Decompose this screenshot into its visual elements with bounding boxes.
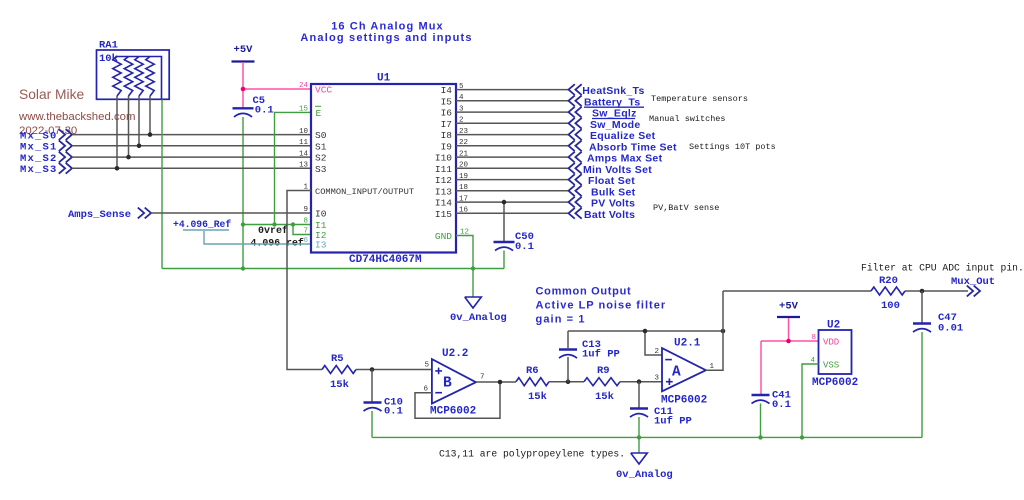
wire U1 I6 to net label	[456, 111, 569, 113]
wire I14 to C50	[503, 202, 505, 241]
svg-text:0vref: 0vref	[258, 225, 288, 237]
junction feedback/output	[721, 329, 726, 334]
svg-text:Equalize Set: Equalize Set	[590, 130, 656, 142]
junction E/0vref	[272, 222, 276, 226]
svg-text:0v_Analog: 0v_Analog	[450, 312, 507, 324]
wire COMMON_INPUT/OUTPUT to R5	[287, 191, 322, 370]
junction RA1/select line	[115, 166, 120, 171]
junction C5/rail	[241, 266, 245, 270]
junction R20/C47	[920, 289, 925, 294]
svg-text:5: 5	[424, 362, 429, 370]
resistor R5	[322, 366, 356, 374]
net label PV Volts	[569, 197, 575, 208]
svg-text:Mx_S0: Mx_S0	[20, 130, 58, 142]
svg-text:9: 9	[303, 206, 308, 214]
wire to U2.1 pin2	[645, 331, 662, 355]
svg-text:7: 7	[303, 228, 308, 236]
svg-text:13: 13	[299, 162, 309, 170]
resistor R20	[871, 287, 905, 295]
capacitor C5	[233, 107, 254, 109]
capacitor C10	[364, 401, 382, 403]
svg-text:I15: I15	[435, 209, 452, 220]
net label Equalize Set	[569, 129, 575, 140]
wire Mx_S1 to U1	[72, 145, 311, 147]
svg-text:Mux_Out: Mux_Out	[951, 276, 995, 288]
svg-text:1uf PP: 1uf PP	[654, 416, 692, 428]
wire U2.2 feedback loop	[415, 382, 500, 418]
svg-text:Manual switches: Manual switches	[649, 114, 726, 124]
svg-text:U2.1: U2.1	[674, 338, 701, 350]
svg-text:R5: R5	[331, 353, 344, 365]
svg-text:1uf PP: 1uf PP	[582, 349, 620, 361]
svg-text:U1: U1	[377, 73, 391, 85]
junction GND/rail	[471, 266, 475, 270]
svg-text:COMMON_INPUT/OUTPUT: COMMON_INPUT/OUTPUT	[315, 187, 414, 197]
wire C5 to 0v rail (green)	[242, 117, 244, 269]
svg-text:15: 15	[299, 106, 309, 114]
ground symbol 0v_Analog (lower)	[631, 453, 648, 464]
svg-text:16 Ch Analog Mux: 16 Ch Analog Mux	[331, 21, 444, 33]
svg-text:I3: I3	[315, 240, 327, 251]
svg-text:0.01: 0.01	[938, 323, 963, 335]
U2.2 plus marker	[435, 370, 442, 372]
underline for Sw_Eqlz	[592, 118, 635, 120]
svg-text:3: 3	[654, 375, 659, 383]
svg-text:I9: I9	[441, 141, 453, 152]
svg-text:C13,11 are polypropeylene type: C13,11 are polypropeylene types.	[439, 449, 625, 460]
svg-text:6: 6	[303, 237, 308, 245]
wire U1 I14 to net label	[456, 201, 569, 203]
wire U2.2 output	[476, 381, 516, 383]
wire C11 to 0v rail (green)	[638, 417, 640, 437]
svg-text:MCP6002: MCP6002	[661, 395, 707, 407]
svg-text:U2: U2	[827, 320, 840, 332]
junction +5V/VDD/C41	[786, 339, 791, 344]
net label Battery_Ts	[569, 95, 575, 106]
svg-text:I11: I11	[435, 164, 452, 175]
junction RA1/select line	[148, 132, 153, 137]
svg-text:MCP6002: MCP6002	[812, 377, 858, 389]
svg-text:I7: I7	[441, 119, 452, 130]
svg-text:R9: R9	[597, 365, 610, 377]
wire junction to C10	[371, 370, 373, 403]
wire R20 to Mux_Out	[905, 290, 968, 292]
wire RA1 lead	[149, 96, 151, 135]
svg-text:10: 10	[299, 128, 309, 136]
junction R5/C10	[370, 367, 375, 372]
wire feedback top horizontal	[568, 330, 723, 332]
svg-text:8: 8	[811, 334, 816, 342]
wire U1 I13 to net label	[456, 190, 569, 192]
wire junction to C13	[567, 357, 569, 382]
wire R9 to U2.1 +	[620, 381, 662, 383]
junction VSS/rail	[800, 435, 804, 439]
wire R20 junction to C47	[921, 291, 923, 323]
capacitor C13	[559, 348, 577, 350]
wire RA1 common to 0v rail (green)	[161, 100, 163, 269]
wire C10 to 0v rail (green)	[371, 411, 373, 437]
svg-text:I4: I4	[441, 85, 453, 96]
svg-text:I0: I0	[315, 209, 327, 220]
svg-text:CD74HC4067M: CD74HC4067M	[349, 254, 422, 266]
svg-text:B: B	[443, 376, 452, 392]
junction I2 branch	[291, 222, 295, 226]
wire Mx_S0 to U1	[72, 134, 311, 136]
IC U1 body	[311, 84, 456, 253]
svg-text:Solar Mike: Solar Mike	[19, 87, 84, 102]
wire to C41 (pink)	[760, 341, 762, 395]
net label Min Volts Set	[569, 163, 575, 174]
svg-text:Mx_S3: Mx_S3	[20, 164, 58, 176]
svg-text:I12: I12	[435, 175, 452, 186]
svg-text:Sw_Mode: Sw_Mode	[590, 119, 641, 131]
svg-text:gain = 1: gain = 1	[536, 314, 586, 326]
capacitor C50	[494, 241, 515, 243]
+4.096_Ref underline	[183, 229, 229, 231]
svg-text:I5: I5	[441, 96, 453, 107]
net label Float Set	[569, 174, 575, 185]
svg-text:Filter at CPU ADC input pin.: Filter at CPU ADC input pin.	[861, 263, 1024, 274]
wire U1 I12 to net label	[456, 179, 569, 181]
svg-text:R20: R20	[879, 275, 898, 287]
op-amp U2.2	[432, 359, 476, 404]
wire R20 line left segment	[723, 290, 871, 292]
junction feedback/pin2	[643, 329, 648, 334]
wire 0v analog rail upper (green)	[162, 268, 504, 270]
svg-text:VCC: VCC	[315, 85, 332, 96]
svg-text:8: 8	[303, 218, 308, 226]
svg-text:0.1: 0.1	[384, 406, 403, 418]
wire junction to C11	[638, 382, 640, 408]
svg-text:2: 2	[654, 348, 659, 356]
junction C5/0vref	[241, 222, 245, 226]
svg-text:Mx_S2: Mx_S2	[20, 153, 58, 165]
svg-text:0.1: 0.1	[515, 241, 534, 253]
junction R6/R9/C13	[566, 379, 571, 384]
wire E pin to 0vref net (green)	[275, 112, 312, 224]
svg-text:Common Output: Common Output	[536, 286, 632, 298]
junction C11/rail	[637, 435, 641, 439]
wire U1 I11 to net label	[456, 167, 569, 169]
svg-text:0.1: 0.1	[255, 104, 274, 116]
wire U1 I9 to net label	[456, 145, 569, 147]
wire Mx_S2 to U1	[72, 156, 311, 158]
op-amp U2.1	[662, 348, 706, 391]
wire U2.1 output up to R20 line	[706, 291, 723, 370]
svg-text:E: E	[316, 108, 322, 119]
svg-text:15k: 15k	[330, 379, 349, 391]
capacitor C47	[913, 322, 931, 324]
wire U1 GND to 0v (green)	[456, 236, 473, 298]
svg-text:Mx_S1: Mx_S1	[20, 142, 58, 154]
svg-text:HeatSnk_Ts: HeatSnk_Ts	[582, 85, 644, 97]
svg-text:Float Set: Float Set	[588, 175, 635, 187]
svg-text:Batt Volts: Batt Volts	[584, 209, 635, 221]
wire C47 to 0v rail (green)	[921, 332, 923, 437]
wire U1 I10 to net label	[456, 156, 569, 158]
svg-text:Active LP noise filter: Active LP noise filter	[536, 300, 667, 312]
wire 0vref horizontal (green)	[243, 224, 311, 226]
svg-text:I14: I14	[435, 198, 452, 209]
svg-text:PV Volts: PV Volts	[591, 198, 635, 210]
wire RA1 lead	[128, 96, 130, 157]
svg-text:+5V: +5V	[779, 301, 799, 313]
net label Batt Volts	[569, 208, 575, 219]
svg-text:24: 24	[299, 82, 309, 90]
wire U1 I5 to net label	[456, 100, 569, 102]
wire C13 to feedback line	[567, 331, 569, 350]
svg-text:VDD: VDD	[823, 338, 839, 348]
svg-text:Amps_Sense: Amps_Sense	[68, 209, 131, 221]
capacitor C11	[630, 407, 648, 409]
wire U1 I15 to net label	[456, 212, 569, 214]
wire 0v analog rail lower (green)	[372, 436, 922, 438]
svg-text:Analog settings and inputs: Analog settings and inputs	[300, 32, 472, 44]
wire 0vref branch to I2 (green)	[293, 225, 311, 235]
ground symbol 0v_Analog (upper)	[465, 297, 482, 308]
svg-text:www.thebackshed.com: www.thebackshed.com	[18, 111, 136, 123]
svg-text:0.1: 0.1	[772, 399, 791, 411]
svg-text:Temperature sensors: Temperature sensors	[651, 94, 748, 104]
wire C50 to 0v rail (green)	[503, 251, 505, 269]
svg-text:GND: GND	[435, 231, 452, 242]
wire U1 I8 to net label	[456, 134, 569, 136]
wire Mx_S3 to U1	[72, 167, 311, 169]
RA1 resistor element 2	[124, 57, 132, 97]
wire C41 to 0v rail (green)	[760, 404, 762, 438]
junction C41/rail	[758, 435, 762, 439]
net label Amps Max Set	[569, 152, 575, 163]
svg-text:+4.096_Ref: +4.096_Ref	[173, 219, 231, 230]
svg-text:VSS: VSS	[823, 361, 839, 371]
wire +4.096_Ref to I3 (teal)	[204, 231, 311, 244]
U2.1 plus marker	[666, 381, 673, 383]
svg-text:11: 11	[299, 139, 309, 147]
svg-text:Bulk Set: Bulk Set	[591, 186, 636, 198]
net label Sw_Mode	[569, 118, 575, 129]
junction U2.2 output/feedback	[498, 380, 503, 385]
U2.2 minus marker	[435, 392, 442, 394]
svg-text:100: 100	[881, 300, 900, 312]
svg-text:S1: S1	[315, 141, 327, 152]
svg-text:R6: R6	[526, 365, 539, 377]
U2.1 minus marker	[665, 359, 672, 361]
wire U1 I7 to net label	[456, 122, 569, 124]
svg-text:15k: 15k	[528, 391, 547, 403]
svg-text:15k: 15k	[595, 391, 614, 403]
junction I14/C50	[502, 200, 507, 205]
svg-text:S2: S2	[315, 153, 327, 164]
svg-text:4.096 ref: 4.096 ref	[251, 238, 304, 249]
svg-text:Absorb Time Set: Absorb Time Set	[589, 141, 677, 153]
wire VSS to 0v rail (green)	[802, 364, 819, 437]
RA1 resistor element 3	[135, 57, 143, 97]
RA1 common bus wire	[117, 57, 162, 100]
svg-text:I10: I10	[435, 153, 452, 164]
underline for Battery_Ts	[584, 106, 644, 108]
wire U1 I4 to net label	[456, 89, 569, 91]
RA1 resistor element 1	[113, 57, 121, 97]
junction RA1/select line	[137, 144, 142, 149]
IC U2 power pins body	[819, 330, 852, 374]
svg-text:+5V: +5V	[234, 44, 254, 56]
svg-text:S0: S0	[315, 130, 327, 141]
wire Amps_Sense to I0	[151, 212, 311, 214]
svg-text:I13: I13	[435, 186, 452, 197]
junction +5V/VCC/C5	[241, 87, 246, 92]
wire RA1 lead	[138, 96, 140, 146]
svg-text:I8: I8	[441, 130, 453, 141]
svg-text:Min Volts Set: Min Volts Set	[583, 164, 652, 176]
wire R6 to R9	[549, 381, 584, 383]
net label Bulk Set	[569, 185, 575, 196]
svg-text:14: 14	[299, 150, 309, 158]
svg-text:7: 7	[480, 374, 485, 382]
svg-text:0v_Analog: 0v_Analog	[616, 469, 673, 481]
wire R5 to U2.2 +	[356, 369, 432, 371]
svg-text:RA1: RA1	[99, 40, 118, 52]
svg-text:U2.2: U2.2	[442, 348, 468, 360]
resistor network RA1 box	[97, 50, 170, 99]
svg-text:MCP6002: MCP6002	[430, 406, 476, 418]
svg-text:I6: I6	[441, 108, 453, 119]
wire +5V to VCC (pink)	[242, 62, 244, 108]
resistor R9	[584, 378, 620, 386]
wire +5V to VDD (pink)	[788, 318, 790, 341]
net label Absorb Time Set	[569, 140, 575, 151]
wire rail to ground symbol (green)	[638, 437, 640, 453]
svg-text:A: A	[672, 365, 681, 381]
net label Sw_Eqlz	[569, 107, 575, 118]
RA1 resistor element 4	[146, 57, 154, 97]
net label HeatSnk_Ts	[569, 84, 575, 95]
svg-text:Settings 10T pots: Settings 10T pots	[689, 142, 776, 152]
wire RA1 lead	[116, 96, 118, 168]
resistor R6	[516, 378, 549, 386]
svg-text:PV,BatV sense: PV,BatV sense	[653, 203, 719, 213]
svg-text:Amps Max Set: Amps Max Set	[587, 153, 663, 165]
svg-text:S3: S3	[315, 164, 327, 175]
capacitor C41	[752, 394, 770, 396]
junction R9/C11	[637, 379, 642, 384]
junction RA1/select line	[126, 155, 131, 160]
